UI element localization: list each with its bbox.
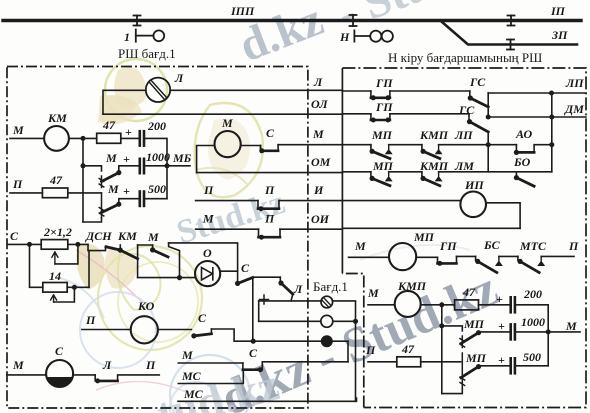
svg-text:М: М <box>565 319 577 333</box>
contact P (I line) : dip <box>258 201 279 209</box>
lamp bus <box>355 302 357 401</box>
DM line <box>486 115 491 120</box>
svg-text:+: + <box>123 184 130 198</box>
LP corner / L line right part <box>488 92 586 94</box>
svg-text:КМ: КМ <box>117 229 137 243</box>
big leaf blobs near KM contacts <box>76 244 104 290</box>
svg-text:М: М <box>105 151 117 165</box>
contact MP arm 2 <box>461 367 479 378</box>
riser from 14-branch up to DSN contact <box>88 251 90 288</box>
resistor 2x1,2 <box>41 240 68 250</box>
ink layer <box>3 15 581 50</box>
wire cap200 to right column <box>144 138 167 198</box>
svg-text:47: 47 <box>49 173 63 187</box>
svg-text:П: П <box>145 358 156 372</box>
wire cap500 to column <box>144 198 167 200</box>
wire C input <box>8 243 41 245</box>
resistor 14 <box>43 283 67 293</box>
wire resistor to cap200 <box>121 137 139 139</box>
beige blob mid-left <box>98 95 142 124</box>
svg-text:П: П <box>365 343 376 357</box>
svg-text:1000: 1000 <box>146 150 170 164</box>
svg-text:М: М <box>367 286 379 300</box>
lamp 1 (hatched) <box>321 296 333 308</box>
svg-text:РШ бағд.1: РШ бағд.1 <box>118 46 176 61</box>
svg-text:200: 200 <box>523 287 542 301</box>
relay C (polarized, half filled) <box>46 360 73 387</box>
svg-text:АО: АО <box>515 127 533 141</box>
contact GS 1 <box>469 91 471 97</box>
insulated joint 3 on branch <box>507 40 514 50</box>
contact MP arm 1 <box>461 333 479 344</box>
wire P input <box>10 192 42 194</box>
svg-text:КМП: КМП <box>419 128 449 142</box>
wire L line right of lamp <box>170 89 342 91</box>
relay KMP <box>395 291 421 317</box>
contact MTS break <box>517 256 519 260</box>
tap loop to node B <box>55 244 78 264</box>
svg-text:ГП: ГП <box>375 100 393 114</box>
armature ticks right <box>460 336 465 348</box>
OL line <box>342 113 371 115</box>
output corner of M contact <box>169 243 180 278</box>
node after 14 <box>72 285 77 290</box>
svg-text:14: 14 <box>49 269 61 283</box>
svg-text:47: 47 <box>401 342 415 356</box>
contact KMP (M row) break <box>421 145 423 151</box>
svg-text:М: М <box>202 212 214 226</box>
resistor 47 (P line) <box>42 188 67 198</box>
contact KMP (OM row) break <box>421 172 423 178</box>
KMP junction column <box>441 305 443 394</box>
bottom wire of right contact group <box>442 388 463 394</box>
segment A <box>253 276 281 278</box>
diode-loop top wire of relay O <box>169 243 238 271</box>
svg-text:1: 1 <box>124 30 130 44</box>
watermark layer <box>60 0 505 413</box>
svg-text:ГС: ГС <box>458 103 475 117</box>
resistor 47 (M line) <box>97 133 121 143</box>
contact M arm 2 <box>102 204 119 212</box>
M row in right box <box>342 144 371 146</box>
contact P (OI line) : dip <box>259 229 281 237</box>
lamp L circle <box>146 78 170 102</box>
svg-text:Л: Л <box>102 358 112 372</box>
OM row <box>342 171 371 173</box>
wire 14 to riser <box>67 286 89 288</box>
svg-text:+: + <box>496 292 503 306</box>
svg-text:МП: МП <box>413 230 435 244</box>
OM line <box>197 172 343 174</box>
svg-text:М: М <box>221 116 233 130</box>
svg-text:+: + <box>125 125 132 139</box>
signal 1 symbol <box>136 30 164 42</box>
svg-text:М: М <box>107 182 119 196</box>
contact GS 2 <box>468 114 470 121</box>
relay M <box>215 131 241 157</box>
svg-text:Л: Л <box>313 75 323 89</box>
wire vertical from KM junction down <box>82 138 84 222</box>
contact M arm 1 <box>102 173 119 182</box>
svg-text:С: С <box>266 126 275 140</box>
svg-text:ИП: ИП <box>464 178 484 192</box>
contact GP (MP row) dip <box>438 256 457 263</box>
svg-text:Л: Л <box>174 71 184 85</box>
resistor 47 (KMP P line) <box>397 357 421 367</box>
contact DSN <box>88 244 106 250</box>
vertical + to lamp2 <box>258 301 260 321</box>
L line in right box <box>342 90 371 92</box>
svg-text:ДМ: ДМ <box>564 102 584 116</box>
svg-text:МП: МП <box>465 351 487 365</box>
contact AO dip <box>515 145 517 153</box>
svg-text:КО: КО <box>137 299 155 313</box>
svg-text:П: П <box>203 183 214 197</box>
I line <box>196 200 258 202</box>
svg-text:О: О <box>203 246 212 260</box>
node junction KM out <box>81 136 86 141</box>
svg-text:КМ: КМ <box>47 111 67 125</box>
svg-text:1000: 1000 <box>521 315 545 329</box>
IP loop to OI <box>486 203 520 229</box>
relay MP <box>389 243 416 270</box>
svg-text:+: + <box>498 319 505 333</box>
svg-text:ЛМ: ЛМ <box>454 159 474 173</box>
insulated joint 2 <box>350 15 357 26</box>
wire segment to M contact <box>138 244 153 246</box>
svg-text:П: П <box>568 239 579 253</box>
svg-text:ЛП: ЛП <box>454 128 473 142</box>
relay O output <box>220 270 237 272</box>
svg-text:ЗП: ЗП <box>551 28 568 42</box>
svg-text:КМП: КМП <box>419 159 449 173</box>
capacitor 500 (right) <box>511 358 515 373</box>
svg-text:МП: МП <box>372 159 394 173</box>
M output right <box>548 331 580 333</box>
svg-text:ІП: ІП <box>550 4 566 18</box>
wire lamp left down to OL <box>103 90 146 114</box>
contact MP (OM row) break <box>370 172 372 178</box>
wire MB terminal <box>167 165 190 167</box>
svg-text:ОЛ: ОЛ <box>311 97 328 111</box>
svg-text:ДСН: ДСН <box>85 229 112 243</box>
contact BO (hanging) <box>515 172 517 177</box>
svg-text:+: + <box>123 152 130 166</box>
svg-text:П: П <box>12 177 23 191</box>
svg-text:М: М <box>354 239 366 253</box>
svg-text:М: М <box>12 358 24 372</box>
svg-text:47: 47 <box>102 118 116 132</box>
wire through resistor to DSN <box>68 243 88 245</box>
I line to IP relay <box>342 200 460 202</box>
tap arrow of 2x1,2 <box>52 252 58 264</box>
cap500 line (right) <box>479 365 511 368</box>
wire cap1000 line <box>119 166 139 173</box>
node MB tap <box>165 163 170 168</box>
MC line 1 <box>178 370 243 384</box>
pale blue arcs bottom-left <box>80 292 156 368</box>
signal N symbol <box>354 30 393 41</box>
P input (right) <box>368 361 397 363</box>
svg-text:ГП: ГП <box>439 239 457 253</box>
svg-text:МС: МС <box>181 369 202 383</box>
svg-text:С: С <box>10 229 19 243</box>
contact BS break <box>475 256 477 260</box>
relay KM <box>44 126 69 151</box>
vertical LP/DM/M/OM link <box>551 93 553 172</box>
svg-text:КМП: КМП <box>397 279 427 293</box>
svg-text:ЛП: ЛП <box>565 76 584 90</box>
svg-text:47: 47 <box>462 285 476 299</box>
wire P resistor to armature <box>68 192 102 194</box>
contact KM (C chain) <box>119 245 121 250</box>
contact C (M line) : dip <box>242 363 244 370</box>
capacitor 1000 <box>140 159 144 173</box>
svg-text:М: М <box>181 348 193 362</box>
svg-text:ІПП: ІПП <box>230 4 255 18</box>
contact GP (OL line) dip <box>371 114 390 120</box>
contact L (to lamp1) <box>279 277 281 282</box>
coil wire into relay O <box>138 277 196 279</box>
svg-text:500: 500 <box>523 350 541 364</box>
insulated joint 4 on main line <box>508 16 515 26</box>
svg-text:М: М <box>12 123 24 137</box>
relay O (with diode) <box>195 261 220 286</box>
svg-text:М: М <box>312 127 324 141</box>
svg-text:С: С <box>249 346 258 360</box>
svg-text:БС: БС <box>483 238 501 252</box>
MC line 2 (long) <box>178 398 357 401</box>
capacitor 500 <box>140 192 144 206</box>
svg-text:500: 500 <box>148 182 166 196</box>
svg-text:С: С <box>241 261 250 275</box>
svg-text:ОИ: ОИ <box>311 212 330 226</box>
svg-text:П: П <box>264 212 275 226</box>
wire down to C contact dot <box>237 271 239 283</box>
left box dash-dot frame <box>7 67 308 409</box>
relay IP <box>460 192 486 218</box>
svg-text:Н: Н <box>339 30 350 44</box>
svg-text:БО: БО <box>513 155 531 169</box>
riser x=252.8 down to lamp3 line <box>252 277 254 341</box>
resistor 47 (KMP M line) <box>455 300 479 310</box>
wire KM to junction <box>69 137 97 139</box>
svg-text:И: И <box>313 183 324 197</box>
contact C (KO line) <box>191 333 196 338</box>
turnout branch <box>442 22 577 45</box>
lamp 2 (open) <box>321 315 333 327</box>
contact C (M relay row) <box>261 145 279 151</box>
svg-text:ГС: ГС <box>469 75 486 89</box>
OI line <box>196 228 259 230</box>
lamp1 wire <box>259 300 321 302</box>
tap loop of 14 <box>54 287 75 302</box>
contact L (bottom line) <box>94 375 96 381</box>
svg-text:200: 200 <box>147 119 166 133</box>
svg-text:МП: МП <box>463 317 485 331</box>
svg-text:МТС: МТС <box>519 239 547 253</box>
svg-text:С: С <box>198 311 207 325</box>
svg-text:МП: МП <box>371 128 393 142</box>
wire OL line <box>103 113 342 115</box>
track main line <box>3 19 581 22</box>
plus mark <box>260 295 269 304</box>
OI line <box>342 227 520 229</box>
capacitor 200 <box>140 131 144 145</box>
svg-text:С: С <box>55 344 64 358</box>
M line <box>178 362 243 364</box>
branch to resistor 14 <box>30 244 43 287</box>
svg-text:Бағд.1: Бағд.1 <box>313 279 348 294</box>
capacitor 1000 (right) <box>511 324 515 339</box>
contact MP (M row) break <box>370 145 372 151</box>
M relay left loop to OM <box>197 146 215 173</box>
capacitor 200 (right) <box>511 297 515 312</box>
node at 83,166 <box>81 163 86 168</box>
yellow swirl right of KM <box>195 103 263 197</box>
lamp2 wire <box>259 320 356 322</box>
node B <box>75 242 80 247</box>
wire junction to armature top <box>83 166 102 171</box>
armature column ticks (M contacts) <box>99 176 104 188</box>
wire bottom of contact group <box>83 218 102 222</box>
svg-text:П: П <box>85 313 96 327</box>
svg-text:Л: Л <box>293 282 303 296</box>
M line from right box to C contact <box>278 144 342 146</box>
contact C (after O) arm <box>238 278 253 284</box>
node column x=137.6 <box>137 245 139 278</box>
lamp3 wire <box>253 340 321 342</box>
svg-text:Н кіру бағдаршамының РШ: Н кіру бағдаршамының РШ <box>388 50 542 65</box>
contact GP (L line) dip <box>371 91 390 98</box>
insulated joint 1 <box>134 16 141 26</box>
svg-text:ОМ: ОМ <box>311 155 331 169</box>
wire M input to KM <box>10 137 44 139</box>
svg-text:МС: МС <box>183 387 204 401</box>
svg-text:П: П <box>264 183 275 197</box>
svg-text:+: + <box>498 353 505 367</box>
svg-text:ГП: ГП <box>375 76 393 90</box>
node C junction A <box>27 242 32 247</box>
contact M (C chain) <box>152 245 154 250</box>
svg-text:2×1,2: 2×1,2 <box>43 225 72 239</box>
svg-text:МБ: МБ <box>172 151 192 165</box>
riser to lamp3 <box>347 341 349 362</box>
right box dash-dot frame <box>342 68 586 408</box>
tap arrow of 14 <box>51 295 57 302</box>
cap1000 line (right) <box>479 331 511 334</box>
yellow-green logo ring top-left <box>105 59 167 121</box>
lamp 3 (filled) <box>321 335 333 347</box>
wire cap500 line <box>119 199 139 205</box>
wire cap1000 to column <box>144 165 167 167</box>
svg-text:М: М <box>147 230 159 244</box>
